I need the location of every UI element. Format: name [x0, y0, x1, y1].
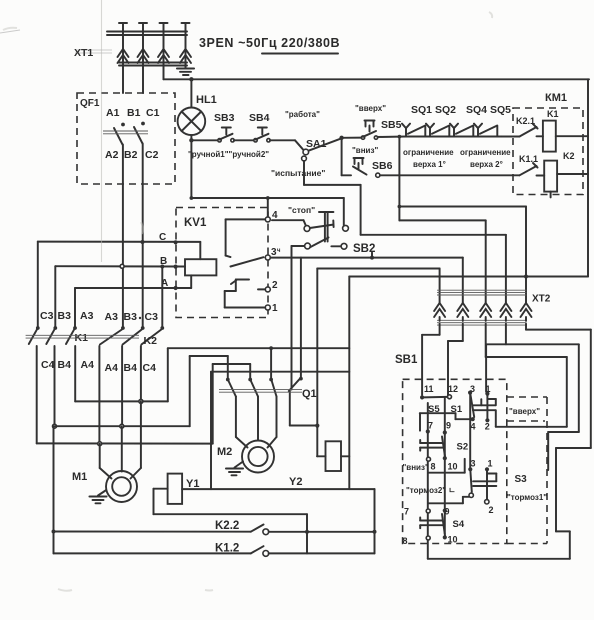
contact S2 cluster: [420, 437, 468, 473]
svg-text:8: 8: [431, 462, 436, 472]
wire SB6 row to K1.1: [342, 174, 520, 176]
QF1 linkage: [103, 131, 148, 134]
wire SQ chain baseline: [378, 136, 407, 139]
wire chevron3 hook right: [486, 324, 567, 427]
limit switches SQ1 SQ2 SQ4 SQ5 contacts: [402, 124, 502, 137]
T1 rail to XT2 chevron5: [398, 205, 527, 303]
contactor output wires: [37, 346, 141, 444]
junction rail a (y=401): [75, 348, 168, 403]
Y1 right pin / box bottom wire: [182, 488, 374, 490]
wire to SA1: [270, 140, 303, 150]
svg-text:SB4: SB4: [249, 112, 270, 124]
auxiliary contact Q1.4: [289, 377, 303, 391]
labels 8 10 row2: [403, 535, 458, 547]
svg-text:M2: M2: [217, 446, 232, 458]
phase rail A to KV1: [75, 275, 191, 328]
contactor K2 poles: [100, 326, 164, 347]
contactor linkage: [26, 335, 139, 338]
svg-text:ограничение: ограничение: [403, 148, 454, 157]
ground PEN: [177, 66, 194, 76]
pushbutton SB6: [352, 146, 393, 177]
solenoid Y1: [168, 474, 200, 504]
wire stop rail from HL1 down: [190, 140, 194, 200]
SB2 rail corner down to Q1 aux contact: [300, 258, 302, 379]
wire: [234, 139, 256, 141]
contact S5-S1 blade: [424, 396, 448, 399]
svg-text:C4: C4: [143, 362, 157, 374]
svg-text:SQ4: SQ4: [466, 104, 487, 116]
svg-text:9: 9: [445, 507, 450, 517]
svg-text:ч: ч: [277, 248, 281, 254]
svg-text:B3: B3: [58, 310, 72, 322]
svg-text:9: 9: [446, 421, 451, 431]
contact K1.2: [54, 543, 375, 557]
svg-text:SQ1: SQ1: [411, 104, 432, 116]
svg-text:K2: K2: [563, 151, 575, 161]
KV1 contact 3-4: [226, 198, 281, 267]
svg-text:K1.1: K1.1: [519, 154, 538, 164]
svg-text:SB1: SB1: [395, 354, 418, 366]
wire to SB5: [342, 137, 363, 139]
wire stop rail: [191, 196, 343, 200]
svg-text:A3: A3: [80, 310, 94, 322]
svg-text:SB3: SB3: [214, 112, 235, 124]
svg-text:A4: A4: [81, 359, 95, 371]
svg-text:2: 2: [272, 280, 278, 291]
QF1 terminal labels A2 B2 C2: [105, 149, 159, 161]
SB1 second column wire: [443, 398, 447, 539]
svg-text:XT2: XT2: [532, 294, 551, 305]
wire QF1 pole A output down: [122, 145, 124, 329]
SB1 left column wire: [426, 403, 431, 559]
XT2 chevron pins: [434, 303, 531, 321]
svg-text:1: 1: [488, 459, 493, 469]
svg-text:"работа": "работа": [285, 110, 320, 119]
labels ограничение верха 1 / 2: [403, 148, 511, 169]
wire chevron4 join: [505, 324, 507, 345]
SB1 pin labels 3 1 row2: [471, 459, 493, 469]
labels C3 B3 A3 / A3 B3 C3: [40, 310, 158, 323]
svg-text:HL1: HL1: [196, 94, 217, 106]
svg-text:"ручной1""ручной2": "ручной1""ручной2": [188, 150, 269, 159]
wire stop lower-left down to aux contact: [292, 246, 305, 390]
relay KV1 dashed box: [176, 208, 268, 318]
relay coil KV1: [185, 259, 216, 275]
labels C4 B4 A4 / A4 B4 C4: [41, 359, 156, 374]
rail 221 from SB5 node to XT2: [398, 135, 486, 303]
svg-text:S3: S3: [515, 474, 528, 485]
svg-text:12: 12: [448, 384, 458, 394]
svg-text:"испытание": "испытание": [271, 168, 325, 178]
wire chevron2 to pin 12: [448, 324, 463, 397]
svg-text:"тормоз1": "тормоз1": [507, 493, 547, 502]
wire QF1 pole B output down: [142, 144, 144, 329]
rail 268 to XT2: [317, 269, 439, 304]
connector XT2: [437, 290, 551, 325]
QF1 pole B contact: [134, 122, 145, 144]
wire pin1 riser and hook: [486, 344, 579, 470]
rail b to Q1 pole 1: [190, 356, 228, 380]
S3 section dashed box: [507, 397, 547, 544]
svg-text:B4: B4: [58, 359, 72, 371]
Q1 pole 3 feed: [270, 348, 272, 379]
wire вниз row from SA1 node down: [341, 138, 343, 176]
svg-text:Y2: Y2: [289, 476, 302, 488]
motor M2: [217, 441, 274, 473]
svg-text:"тормоз2" ㄴ: "тормоз2" ㄴ: [406, 486, 456, 495]
lamp HL1: [178, 79, 217, 142]
motor M1: [72, 471, 137, 502]
svg-text:11: 11: [424, 384, 434, 394]
junction rail c (y=443.6): [37, 364, 213, 446]
svg-text:B1: B1: [127, 107, 141, 119]
svg-text:C2: C2: [145, 149, 159, 161]
text supply 3PEN ~50Hz 220/380V: [199, 36, 340, 54]
wire chevron5 big hook: [526, 324, 591, 559]
svg-text:K2.2: K2.2: [215, 520, 239, 532]
svg-text:C4: C4: [41, 359, 55, 371]
wire aux contact to Y2 connector: [290, 391, 320, 428]
wire control row: [191, 139, 219, 141]
relay coil K2: [544, 151, 588, 197]
wire B phase down to bottom rails: [52, 426, 56, 553]
auxiliary contact K1.1: [519, 154, 544, 176]
relay coil K1: [543, 109, 588, 152]
svg-text:SB5: SB5: [381, 119, 402, 131]
M2 feed wires: [236, 397, 277, 448]
svg-text:3PEN ~50Гц 220/380В: 3PEN ~50Гц 220/380В: [199, 36, 340, 50]
stop button actuator: [319, 212, 333, 242]
rail phase to right edge: [349, 275, 588, 490]
svg-text:A4: A4: [105, 362, 119, 374]
svg-text:"вверх": "вверх": [355, 104, 386, 113]
svg-text:A3: A3: [105, 311, 119, 323]
contact S3 cluster: [429, 469, 528, 515]
labels S5 S1: [428, 404, 463, 415]
svg-text:1: 1: [272, 303, 278, 314]
svg-text:"вверх": "вверх": [509, 407, 540, 416]
svg-text:2: 2: [485, 422, 490, 432]
phase rail B to KV1: [55, 264, 185, 328]
command switch SB1 dashed box: [403, 379, 507, 543]
svg-text:B3: B3: [124, 311, 138, 323]
SB2 rail: [271, 253, 463, 304]
auxiliary contact K2.1: [502, 116, 543, 137]
svg-text:S2: S2: [457, 442, 469, 453]
KV1 terminal B: [160, 256, 178, 269]
svg-text:KV1: KV1: [184, 217, 207, 229]
middle column wires: [468, 394, 489, 472]
connector XT1 incoming lines: [107, 23, 190, 93]
svg-text:A1: A1: [106, 107, 120, 119]
contact S4 cluster: [420, 514, 465, 537]
wire phase line to HL1 and KM1: [164, 77, 590, 81]
svg-text:SQ5: SQ5: [490, 104, 511, 116]
svg-text:"вниз": "вниз": [352, 146, 378, 155]
svg-text:ограничение: ограничение: [460, 148, 511, 157]
svg-text:C1: C1: [146, 107, 160, 119]
svg-text:"стоп": "стоп": [288, 205, 315, 215]
wire испытание from SA1: [304, 161, 361, 235]
svg-text:S4: S4: [453, 519, 465, 530]
contact S1 column: [420, 393, 567, 432]
wire chevron1 to pin 11: [422, 324, 440, 395]
svg-text:B4: B4: [124, 362, 138, 374]
svg-text:верха 1°: верха 1°: [413, 160, 446, 169]
wire box around M2 circuit: [211, 372, 349, 489]
svg-text:K2: K2: [144, 335, 158, 347]
wire SB1 bottom chain: [428, 558, 570, 560]
svg-text:SB6: SB6: [372, 160, 393, 172]
svg-text:QF1: QF1: [80, 98, 100, 109]
rail c to Q1 pole 2: [213, 364, 251, 380]
KV1 terminal A: [161, 278, 178, 290]
SB1 pin labels 7 9: [428, 421, 451, 431]
pushbutton SB3: [214, 112, 235, 142]
contactor K1 poles: [29, 326, 88, 344]
labels тормоз2 тормоз1: [406, 486, 456, 495]
QF1 pole A contact: [114, 123, 125, 145]
svg-text:2: 2: [489, 505, 494, 515]
M1 feed wires: [100, 401, 141, 478]
QF1 terminal labels A1 B1 C1: [106, 107, 160, 119]
svg-text:10: 10: [448, 462, 458, 472]
svg-text:верха 2°: верха 2°: [470, 160, 503, 169]
stop button upper contact: [304, 198, 348, 231]
contact K2.2: [54, 520, 377, 535]
XT1 pin chevrons: [118, 49, 192, 63]
ground M1: [90, 490, 107, 503]
Y1 left pin wire: [154, 489, 310, 554]
riser to Y2 coil: [316, 269, 318, 457]
svg-text:3: 3: [471, 459, 476, 469]
svg-text:8: 8: [403, 536, 408, 546]
svg-text:C3: C3: [145, 311, 159, 323]
svg-text:"вниз": "вниз": [403, 463, 429, 472]
svg-text:M1: M1: [72, 471, 87, 483]
wire stop upper left terminal: [272, 220, 306, 225]
KV1 contact 1-2: [225, 280, 278, 315]
svg-text:A2: A2: [105, 149, 119, 161]
SB1 pin labels 7 9 row2: [404, 507, 450, 517]
junction rail b (y=426): [53, 356, 190, 428]
scan smudges (decorative): [3, 12, 492, 591]
svg-text:4: 4: [471, 422, 476, 432]
rail to Q1 and Y2 (y=348): [168, 346, 349, 350]
selector switch SA1: [302, 136, 344, 161]
contactor KM1 dashed box: [513, 108, 583, 195]
pushbutton SB5: [355, 104, 402, 139]
svg-text:10: 10: [448, 535, 458, 545]
solenoid Y2: [317, 441, 349, 471]
wire right edge down to KM1 coils: [587, 79, 589, 276]
rail испытание to XT2: [361, 235, 506, 303]
labels SQ1 SQ2 SQ4 SQ5: [411, 104, 511, 116]
svg-text:SQ2: SQ2: [435, 104, 456, 116]
KV1 terminal C: [159, 232, 178, 244]
circuit breaker QF1 dashed box: [77, 93, 175, 184]
SB1 pin labels 11 12 3 1: [424, 384, 491, 394]
svg-text:B2: B2: [124, 149, 138, 161]
svg-text:7: 7: [404, 507, 409, 517]
svg-text:Q1: Q1: [302, 388, 317, 400]
wire right side of box down: [374, 489, 376, 553]
faint scan marks near XT1: [0, 30, 112, 53]
svg-text:КМ1: КМ1: [545, 92, 567, 104]
pushbutton SB4: [249, 112, 270, 142]
ground M2: [226, 462, 243, 476]
svg-text:K1: K1: [547, 109, 559, 119]
phase rail C to KV1: [38, 240, 201, 328]
paper crease (decorative): [101, 0, 103, 262]
stop button lower contact / SB2: [305, 238, 376, 256]
SB1 pin dots row 1: [420, 391, 490, 400]
labels вниз 8 10: [403, 462, 458, 473]
svg-text:C3: C3: [40, 310, 54, 322]
disconnect switch Q1: [219, 378, 317, 400]
